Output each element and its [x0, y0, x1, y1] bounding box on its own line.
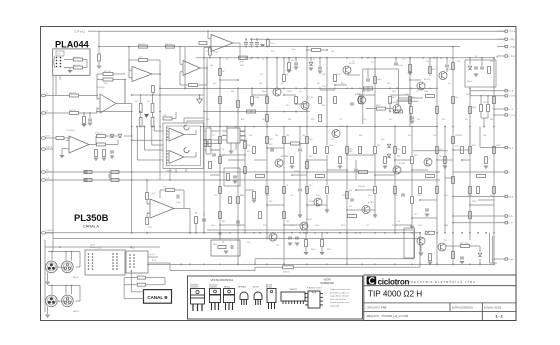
- svg-text:R98: R98: [483, 135, 486, 137]
- svg-text:Logic: Logic: [508, 259, 514, 261]
- svg-text:CLIP in(C): CLIP in(C): [74, 30, 85, 33]
- svg-text:100n: 100n: [377, 79, 381, 81]
- svg-text:330: 330: [349, 190, 352, 192]
- svg-text:4u7: 4u7: [147, 101, 150, 103]
- svg-text:R52: R52: [367, 91, 370, 93]
- svg-text:VU(A): VU(A): [508, 38, 514, 41]
- svg-text:470R 1%: 470R 1%: [95, 133, 103, 135]
- svg-text:390: 390: [349, 206, 352, 208]
- svg-text:R134: R134: [444, 225, 448, 227]
- svg-text:C11: C11: [371, 62, 374, 64]
- svg-text:R72: R72: [389, 119, 392, 121]
- svg-text:R30: R30: [426, 61, 429, 63]
- svg-text:R103: R103: [265, 195, 269, 197]
- svg-text:LM393: LM393: [166, 171, 173, 173]
- svg-text:2K2: 2K2: [269, 144, 272, 146]
- svg-text:Q16: Q16: [276, 245, 279, 247]
- svg-text:PL350B: PL350B: [74, 212, 109, 223]
- svg-text:Q4: Q4: [299, 91, 301, 93]
- svg-text:R124: R124: [290, 225, 294, 227]
- svg-text:R126: R126: [315, 225, 319, 227]
- svg-text:CANAL A: CANAL A: [83, 224, 99, 228]
- svg-text:RL A: RL A: [508, 146, 513, 149]
- svg-text:C13: C13: [402, 59, 405, 61]
- svg-text:C32: C32: [290, 195, 293, 197]
- svg-text:142: 142: [444, 240, 447, 242]
- svg-text:R18: R18: [271, 51, 274, 53]
- svg-text:C22: C22: [339, 119, 342, 121]
- svg-text:capacitores eletrolí-: capacitores eletrolí-: [330, 295, 349, 298]
- svg-text:R88: R88: [359, 135, 362, 137]
- svg-text:C20: C20: [206, 119, 209, 121]
- svg-text:relay: relay: [97, 248, 101, 250]
- svg-text:R101: R101: [240, 195, 244, 197]
- svg-text:BD139: BD139: [424, 79, 430, 81]
- svg-text:C40: C40: [247, 242, 250, 244]
- svg-text:1K5: 1K5: [439, 156, 442, 158]
- svg-text:TLE2072, TL072: TLE2072, TL072: [307, 288, 323, 290]
- svg-text:exceto aqueles com: exceto aqueles com: [330, 301, 350, 304]
- svg-text:BC550: BC550: [253, 97, 260, 99]
- svg-text:R40: R40: [213, 83, 216, 85]
- svg-text:R60: R60: [241, 119, 244, 121]
- svg-text:R47: R47: [317, 83, 320, 85]
- svg-text:1 - 2: 1 - 2: [495, 315, 502, 319]
- svg-text:2K2 1%: 2K2 1%: [69, 93, 76, 95]
- svg-text:D2: D2: [313, 59, 315, 61]
- svg-text:R94: R94: [433, 135, 436, 137]
- svg-text:MPSA06: MPSA06: [238, 286, 247, 289]
- svg-text:IN-: IN-: [46, 110, 49, 112]
- svg-text:BC327: BC327: [253, 287, 260, 289]
- svg-text:BD140: BD140: [266, 287, 273, 289]
- svg-text:de 1/4W e todos os: de 1/4W e todos os: [330, 291, 350, 294]
- svg-text:4K7: 4K7: [392, 97, 395, 99]
- svg-text:0R22 5W: 0R22 5W: [460, 243, 468, 245]
- svg-text:10K 1%: 10K 1%: [165, 44, 172, 46]
- svg-text:REG: REG: [213, 244, 218, 246]
- svg-text:SUPERIOR: SUPERIOR: [320, 281, 334, 285]
- svg-text:100uF: 100uF: [467, 81, 473, 83]
- svg-text:CANAL B: CANAL B: [147, 295, 168, 300]
- svg-text:R115: R115: [468, 195, 472, 197]
- svg-text:R62: R62: [262, 119, 265, 121]
- svg-text:BC550: BC550: [349, 63, 355, 65]
- svg-text:VISTA FRONTAL: VISTA FRONTAL: [211, 278, 234, 282]
- svg-text:2K2 1%: 2K2 1%: [69, 110, 76, 112]
- svg-text:TL072: TL072: [213, 52, 220, 54]
- svg-text:1N4148: 1N4148: [358, 186, 365, 188]
- svg-text:MPSA06: MPSA06: [281, 155, 288, 158]
- svg-text:100n: 100n: [424, 91, 428, 93]
- svg-text:R122: R122: [263, 225, 267, 227]
- svg-text:C37: C37: [366, 225, 369, 227]
- svg-text:100n: 100n: [291, 49, 295, 51]
- svg-text:FOLHA: 01/03: FOLHA: 01/03: [484, 306, 502, 310]
- svg-text:D4: D4: [475, 56, 477, 58]
- svg-text:R70: R70: [363, 119, 366, 121]
- svg-text:TL072(H): TL072(H): [96, 87, 105, 89]
- svg-text:2SC5200: 2SC5200: [190, 287, 199, 289]
- svg-text:2SA1005: 2SA1005: [209, 286, 218, 289]
- svg-text:R22: R22: [291, 60, 294, 62]
- svg-text:R142: R142: [327, 249, 331, 251]
- svg-text:C6: C6: [262, 59, 264, 61]
- svg-text:BC327: BC327: [368, 202, 374, 204]
- svg-text:D8: D8: [222, 242, 224, 244]
- svg-text:R96: R96: [459, 135, 462, 137]
- svg-text:4.7uF: 4.7uF: [150, 193, 156, 195]
- svg-text:4K7 1%: 4K7 1%: [73, 57, 80, 59]
- svg-text:ciclotron: ciclotron: [378, 277, 410, 286]
- svg-text:R84: R84: [275, 135, 278, 137]
- svg-text:Q7: Q7: [416, 91, 418, 93]
- svg-text:10K 1%: 10K 1%: [138, 44, 145, 46]
- svg-text:R41: R41: [231, 91, 234, 93]
- svg-text:560: 560: [286, 221, 289, 223]
- svg-text:100R: 100R: [239, 62, 244, 64]
- svg-text:ticos são de 25v,: ticos são de 25v,: [330, 298, 347, 301]
- svg-text:R53: R53: [357, 94, 360, 96]
- svg-text:BC550: BC550: [294, 171, 300, 173]
- svg-text:Q14: Q14: [368, 195, 371, 197]
- svg-text:10K 1%: 10K 1%: [104, 71, 111, 73]
- svg-text:BF422: BF422: [224, 287, 231, 289]
- svg-text:B- A: B- A: [508, 215, 513, 218]
- svg-text:R54: R54: [387, 83, 390, 85]
- svg-text:2K7: 2K7: [309, 185, 312, 187]
- svg-text:2K7: 2K7: [414, 214, 417, 216]
- svg-text:Todos resistores são: Todos resistores são: [330, 288, 351, 291]
- svg-text:1K8: 1K8: [392, 91, 395, 93]
- svg-text:B+ A: B+ A: [508, 90, 513, 93]
- svg-text:0R22: 0R22: [483, 102, 488, 104]
- svg-text:2M2: 2M2: [362, 91, 366, 93]
- svg-text:R25: R25: [331, 51, 334, 53]
- svg-text:4K7: 4K7: [309, 156, 312, 158]
- svg-text:RL B: RL B: [46, 135, 51, 137]
- svg-text:R56: R56: [405, 94, 408, 96]
- svg-text:TL072(H): TL072(H): [66, 130, 75, 132]
- svg-text:R86: R86: [302, 135, 305, 137]
- svg-text:TCA0372: TCA0372: [289, 288, 298, 291]
- svg-text:L+15(C): L+15(C): [508, 56, 516, 58]
- svg-text:C30: C30: [214, 195, 217, 197]
- svg-text:8K2: 8K2: [222, 221, 225, 223]
- svg-text:100n: 100n: [240, 65, 244, 67]
- svg-text:330R: 330R: [287, 91, 292, 93]
- svg-text:B- B: B- B: [508, 223, 513, 225]
- svg-text:GND A: GND A: [46, 145, 53, 148]
- svg-text:relay: relay: [130, 248, 134, 250]
- svg-text:0R22: 0R22: [472, 107, 477, 109]
- svg-text:22uF: 22uF: [270, 43, 275, 45]
- svg-text:R12: R12: [206, 51, 209, 53]
- svg-text:BC560: BC560: [338, 126, 344, 128]
- svg-text:COMP A: COMP A: [46, 229, 55, 232]
- svg-text:R33: R33: [457, 61, 460, 63]
- svg-text:R109: R109: [393, 195, 397, 197]
- svg-text:OUT A: OUT A: [508, 95, 515, 98]
- svg-text:Q3: Q3: [281, 83, 283, 85]
- svg-text:R64: R64: [288, 119, 291, 121]
- svg-text:4K7 1%: 4K7 1%: [73, 65, 80, 67]
- svg-text:R74: R74: [417, 119, 420, 121]
- svg-text:680R: 680R: [376, 105, 381, 107]
- svg-text:R117: R117: [490, 195, 494, 197]
- svg-text:PLA044: PLA044: [55, 40, 90, 50]
- svg-text:47uF: 47uF: [398, 65, 403, 67]
- svg-text:+15(A): +15(A): [508, 46, 515, 49]
- svg-text:C35: C35: [237, 225, 240, 227]
- svg-text:TIP 4000 Ω2 H: TIP 4000 Ω2 H: [368, 290, 422, 299]
- svg-text:R66: R66: [311, 119, 314, 121]
- svg-text:R49: R49: [341, 83, 344, 85]
- svg-text:B (C): B (C): [150, 254, 155, 256]
- svg-text:4u7: 4u7: [135, 101, 138, 103]
- svg-text:R132: R132: [418, 225, 422, 227]
- svg-text:R105: R105: [316, 195, 320, 197]
- svg-text:R43: R43: [259, 83, 262, 85]
- svg-text:B+ B: B+ B: [508, 109, 513, 111]
- svg-text:Q8: Q8: [448, 83, 450, 85]
- svg-text:C9: C9: [352, 61, 354, 63]
- svg-text:R92: R92: [408, 135, 411, 137]
- svg-text:R111: R111: [418, 195, 422, 197]
- svg-text:C5: C5: [249, 59, 251, 61]
- svg-text:6K8: 6K8: [414, 155, 417, 157]
- svg-text:C4: C4: [226, 59, 228, 61]
- svg-text:OUT B: OUT B: [508, 115, 515, 117]
- svg-text:RE A: RE A: [508, 195, 514, 198]
- svg-text:R113: R113: [444, 195, 448, 197]
- svg-text:ARQUIVO.: /TIP4000_H2_V1.CDR: ARQUIVO.: /TIP4000_H2_V1.CDR: [367, 314, 409, 318]
- svg-text:VISTA: VISTA: [323, 278, 331, 282]
- svg-text:Q11: Q11: [331, 139, 334, 141]
- svg-text:R140: R140: [311, 249, 315, 251]
- svg-text:8K2: 8K2: [322, 105, 325, 107]
- svg-text:2K2: 2K2: [286, 105, 289, 107]
- svg-text:R58: R58: [466, 94, 469, 96]
- svg-text:indicação.: indicação.: [330, 305, 340, 308]
- svg-text:C15: C15: [490, 61, 493, 63]
- svg-text:R130: R130: [392, 225, 396, 227]
- svg-text:R107: R107: [342, 195, 346, 197]
- svg-text:100R: 100R: [496, 145, 501, 147]
- svg-text:A7BUS: A7BUS: [283, 271, 290, 274]
- svg-text:220R: 220R: [472, 201, 477, 203]
- svg-text:IC2: IC2: [212, 135, 215, 137]
- svg-text:R76: R76: [442, 119, 445, 121]
- svg-text:100K: 100K: [329, 145, 334, 147]
- svg-text:R128: R128: [341, 225, 345, 227]
- svg-text:100R: 100R: [309, 201, 314, 203]
- svg-text:A (C): A (C): [152, 259, 157, 262]
- svg-text:R80: R80: [490, 119, 493, 121]
- svg-text:CLIP A: CLIP A: [508, 30, 515, 33]
- svg-text:Q10: Q10: [249, 135, 252, 137]
- svg-text:R78: R78: [465, 119, 468, 121]
- svg-text:BC560: BC560: [307, 97, 314, 99]
- svg-text:traseiro: traseiro: [90, 246, 96, 249]
- svg-text:BD140: BD140: [446, 69, 452, 71]
- svg-text:BC550: BC550: [306, 219, 312, 221]
- svg-text:BC337: BC337: [399, 163, 405, 165]
- svg-text:R90: R90: [381, 139, 384, 141]
- svg-text:R120: R120: [211, 225, 215, 227]
- svg-text:DATA:02/09/2001: DATA:02/09/2001: [452, 306, 473, 310]
